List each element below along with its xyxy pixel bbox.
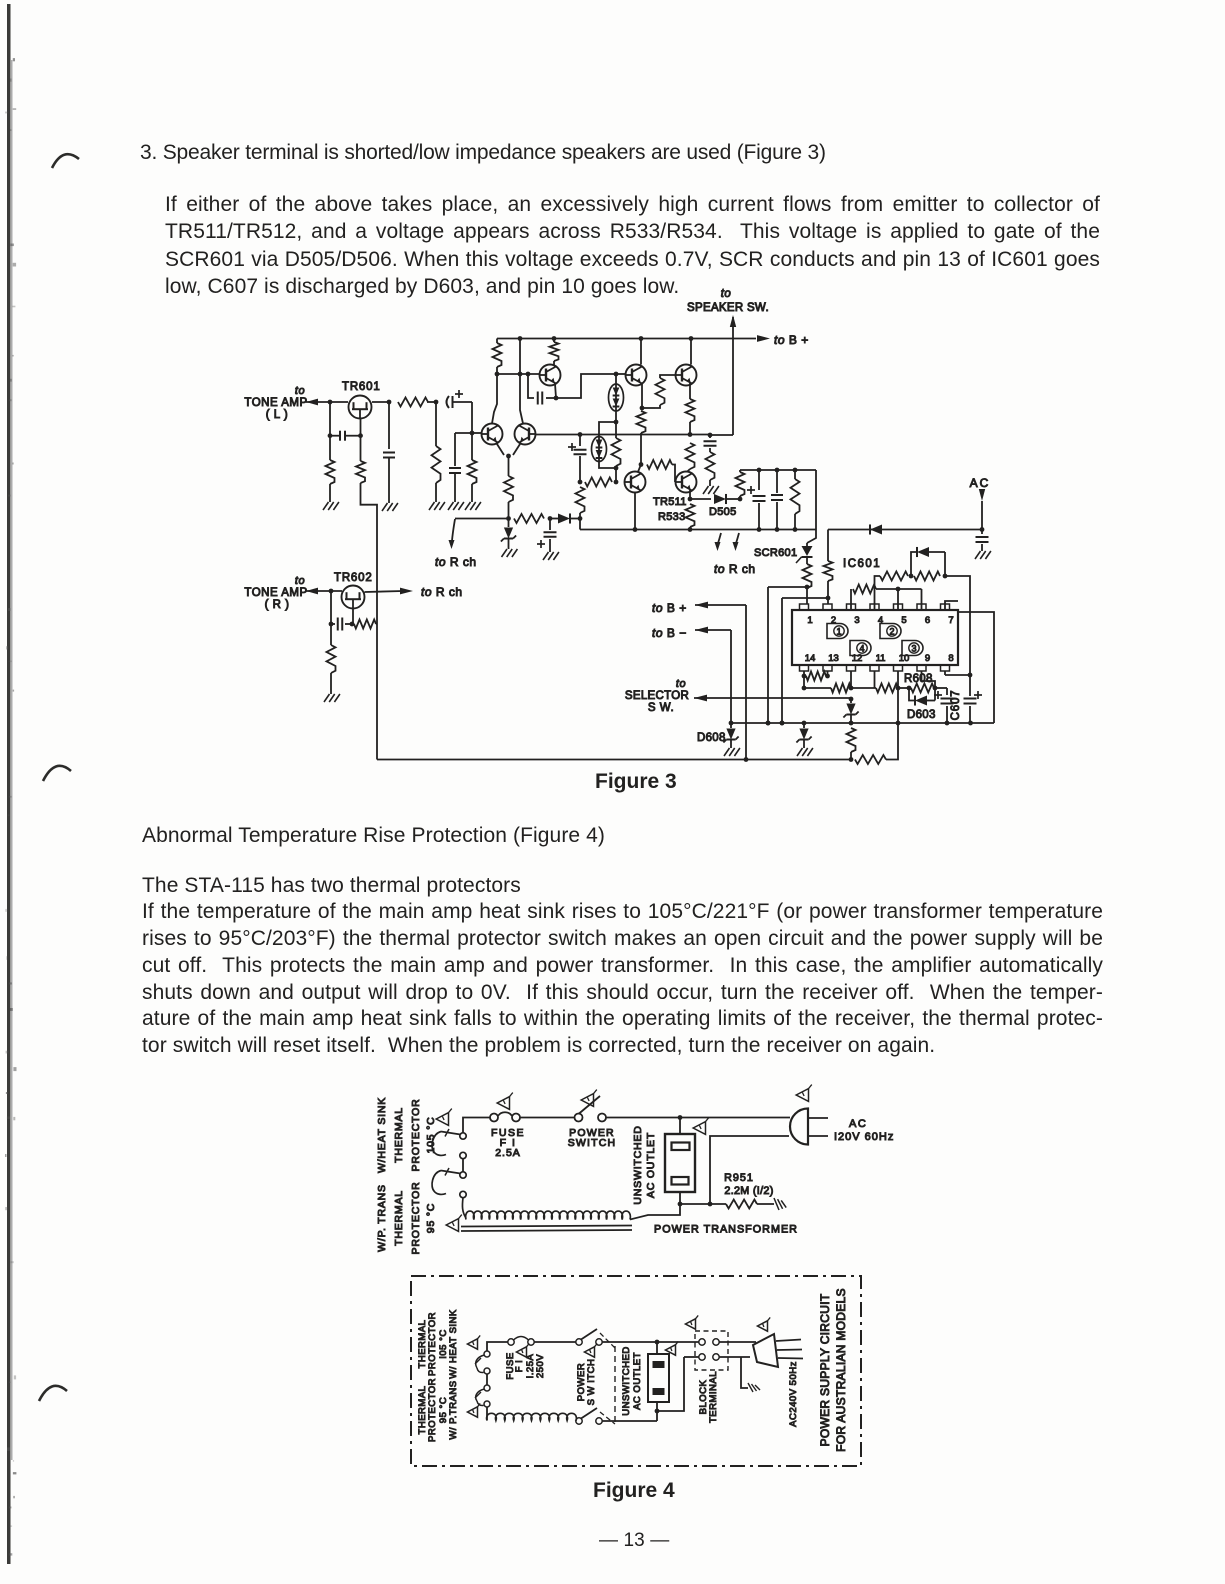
svg-text:IC601: IC601 xyxy=(843,558,881,570)
svg-text:14: 14 xyxy=(805,653,816,664)
svg-text:S W ITCH: S W ITCH xyxy=(586,1359,597,1406)
svg-text:SCR601: SCR601 xyxy=(754,547,797,559)
svg-text:F I: F I xyxy=(514,1360,525,1373)
svg-text:D608: D608 xyxy=(697,732,726,744)
svg-text:SPEAKER SW.: SPEAKER SW. xyxy=(687,302,769,314)
svg-text:D505: D505 xyxy=(709,506,737,518)
svg-text:THERMAL: THERMAL xyxy=(393,1190,405,1246)
svg-text:SWITCH: SWITCH xyxy=(568,1137,617,1149)
svg-text:10: 10 xyxy=(899,653,910,664)
svg-text:PROTECTOR: PROTECTOR xyxy=(427,1378,438,1442)
svg-text:to: to xyxy=(676,678,686,690)
svg-text:C607: C607 xyxy=(950,690,962,721)
svg-text:2: 2 xyxy=(889,627,894,637)
svg-text:( L ): ( L ) xyxy=(266,409,289,421)
svg-text:250V: 250V xyxy=(535,1354,546,1378)
svg-text:SELECTOR: SELECTOR xyxy=(625,690,689,702)
svg-text:S W.: S W. xyxy=(648,702,674,714)
svg-text:D603: D603 xyxy=(907,709,936,721)
svg-text:UNSWITCHED: UNSWITCHED xyxy=(621,1346,632,1415)
svg-text:R533: R533 xyxy=(658,511,686,523)
svg-text:TERMINAL: TERMINAL xyxy=(708,1371,719,1423)
svg-text:W/P. TRANS: W/P. TRANS xyxy=(376,1184,388,1252)
svg-text:to R ch: to R ch xyxy=(714,562,756,576)
svg-text:AC: AC xyxy=(849,1118,867,1130)
svg-text:3: 3 xyxy=(854,615,859,626)
svg-text:PROTECTOR: PROTECTOR xyxy=(410,1099,422,1172)
svg-text:AC OUTLET: AC OUTLET xyxy=(632,1352,643,1410)
svg-text:95 °C: 95 °C xyxy=(425,1203,437,1233)
svg-text:W/ P.TRANS: W/ P.TRANS xyxy=(448,1380,459,1439)
svg-text:TR601: TR601 xyxy=(342,381,381,393)
svg-text:TR602: TR602 xyxy=(334,572,373,584)
svg-text:I20V 60Hz: I20V 60Hz xyxy=(834,1131,894,1143)
svg-text:AC240V 50Hz: AC240V 50Hz xyxy=(788,1361,799,1427)
svg-text:to R ch: to R ch xyxy=(435,555,477,569)
svg-text:TONE AMP: TONE AMP xyxy=(244,587,307,599)
svg-text:to R ch: to R ch xyxy=(421,585,463,599)
svg-text:2: 2 xyxy=(831,615,836,626)
svg-text:PROTECTOR: PROTECTOR xyxy=(410,1182,422,1255)
svg-text:2.5A: 2.5A xyxy=(495,1147,521,1159)
svg-text:2.2M (I/2): 2.2M (I/2) xyxy=(724,1185,773,1197)
svg-text:POWER SUPPLY CIRCUIT: POWER SUPPLY CIRCUIT xyxy=(818,1293,832,1446)
svg-text:6: 6 xyxy=(925,615,930,626)
svg-text:THERMAL: THERMAL xyxy=(393,1107,405,1163)
svg-text:8: 8 xyxy=(948,653,953,664)
svg-text:11: 11 xyxy=(876,653,886,664)
svg-text:TR511: TR511 xyxy=(653,496,687,508)
svg-text:to B −: to B − xyxy=(652,626,687,640)
svg-text:AC OUTLET: AC OUTLET xyxy=(645,1132,657,1198)
svg-text:1: 1 xyxy=(807,615,812,626)
svg-text:12: 12 xyxy=(852,653,863,664)
svg-text:PROTECTOR: PROTECTOR xyxy=(427,1312,438,1376)
svg-text:AC: AC xyxy=(970,476,991,490)
svg-text:POWER TRANSFORMER: POWER TRANSFORMER xyxy=(654,1224,798,1236)
svg-text:3: 3 xyxy=(911,644,916,654)
svg-text:13: 13 xyxy=(828,653,839,664)
svg-text:R608: R608 xyxy=(904,673,933,685)
svg-text:TONE AMP: TONE AMP xyxy=(244,397,307,409)
svg-text:R951: R951 xyxy=(724,1172,754,1184)
svg-text:to: to xyxy=(721,288,732,300)
svg-text:7: 7 xyxy=(948,615,953,626)
svg-text:9: 9 xyxy=(925,653,930,664)
svg-text:FOR AUSTRALIAN MODELS: FOR AUSTRALIAN MODELS xyxy=(834,1288,848,1452)
svg-text:1: 1 xyxy=(836,627,841,637)
svg-text:to B +: to B + xyxy=(774,333,809,347)
svg-text:( R ): ( R ) xyxy=(265,599,290,611)
svg-text:UNSWITCHED: UNSWITCHED xyxy=(632,1125,644,1204)
svg-text:W/ HEAT SINK: W/ HEAT SINK xyxy=(448,1309,459,1379)
svg-text:5: 5 xyxy=(901,615,906,626)
svg-text:W/HEAT SINK: W/HEAT SINK xyxy=(376,1097,388,1173)
svg-text:to: to xyxy=(295,575,305,587)
svg-text:to B +: to B + xyxy=(652,601,687,615)
svg-text:4: 4 xyxy=(859,644,864,654)
svg-text:to: to xyxy=(295,385,305,397)
